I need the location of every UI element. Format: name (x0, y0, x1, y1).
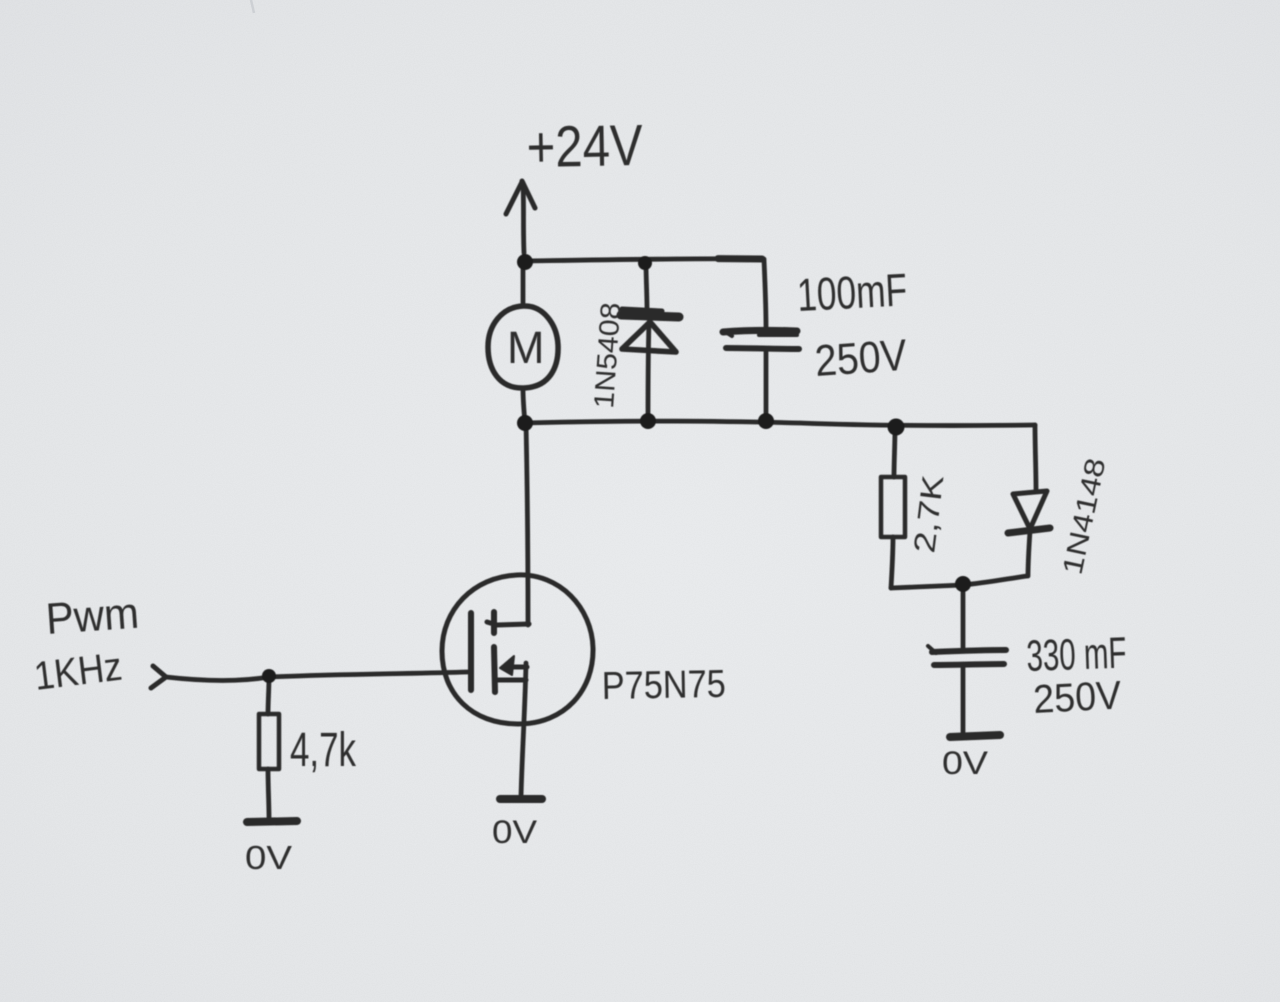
svg-text:250V: 250V (1032, 673, 1122, 722)
svg-text:M: M (507, 322, 545, 373)
svg-text:4,7k: 4,7k (290, 724, 357, 777)
svg-text:100mF: 100mF (796, 263, 909, 321)
svg-text:P75N75: P75N75 (601, 663, 726, 708)
svg-text:0V: 0V (492, 814, 538, 850)
svg-text:250V: 250V (813, 331, 909, 386)
svg-text:+24V: +24V (526, 113, 643, 180)
svg-text:0V: 0V (942, 745, 989, 781)
svg-text:0V: 0V (245, 839, 292, 876)
svg-text:Pwm: Pwm (44, 589, 140, 644)
